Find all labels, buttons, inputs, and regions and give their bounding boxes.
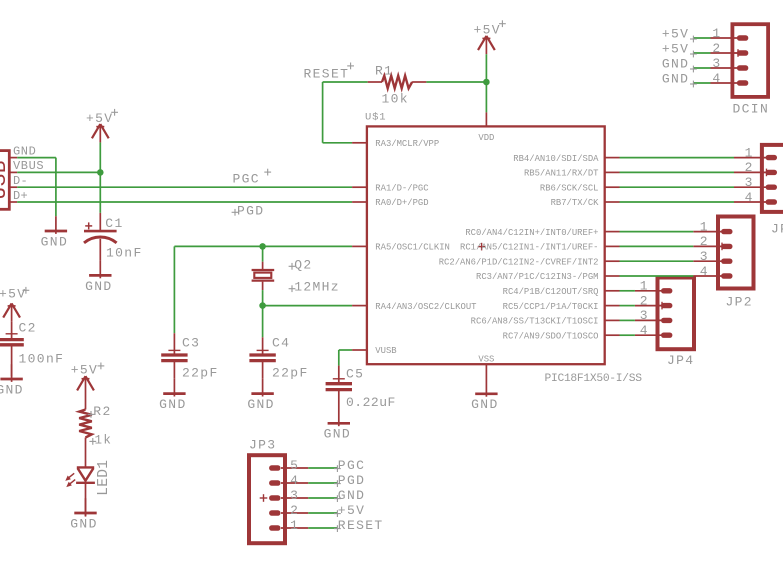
svg-text:Q2: Q2 (294, 257, 312, 272)
ground under C5 (324, 409, 351, 442)
label PGD (232, 203, 265, 218)
svg-text:4: 4 (290, 473, 299, 488)
svg-text:3: 3 (640, 308, 649, 323)
power +5V above VDD (474, 20, 506, 54)
svg-text:U$1: U$1 (365, 112, 386, 124)
svg-text:+5V: +5V (0, 287, 26, 302)
label RESET (304, 63, 355, 82)
svg-text:C3: C3 (182, 335, 200, 350)
svg-text:GND: GND (662, 56, 689, 71)
connector JP2 (693, 217, 753, 310)
svg-text:RA5/OSC1/CLKIN: RA5/OSC1/CLKIN (375, 243, 450, 253)
svg-text:1: 1 (640, 279, 649, 294)
wire IC to JP1 row (620, 171, 735, 173)
connector DCIN (711, 24, 770, 116)
wire GND net from USB (17, 158, 56, 217)
svg-text:D-: D- (13, 174, 28, 188)
svg-text:4: 4 (640, 323, 649, 338)
ground under VSS (471, 379, 498, 412)
labels JP3 PGC PGD GND +5V RESET (334, 458, 384, 533)
svg-text:RC1/AN5/C12IN1-/INT1/UREF-: RC1/AN5/C12IN1-/INT1/UREF- (460, 243, 598, 253)
svg-text:100nF: 100nF (19, 351, 65, 366)
svg-text:3: 3 (290, 488, 299, 503)
svg-text:3: 3 (700, 249, 709, 264)
wire junction down to C4 (262, 306, 264, 338)
junction VBUS/+5V/C1 (97, 169, 104, 176)
svg-text:RB5/AN11/RX/DT: RB5/AN11/RX/DT (524, 169, 599, 179)
svg-text:10k: 10k (382, 91, 409, 106)
power +5V above C1 (86, 109, 118, 142)
svg-text:2: 2 (290, 503, 299, 518)
connector JP1 (cut off at right edge) (734, 145, 783, 237)
wire net PGD (D+) USB to RA0 (17, 201, 352, 203)
svg-text:RC6/AN8/SS/T13CKI/T1OSCI: RC6/AN8/SS/T13CKI/T1OSCI (471, 317, 599, 327)
svg-text:+5V: +5V (86, 111, 113, 126)
wire R1 to +5V/VDD junction (426, 81, 486, 83)
capacitor C3 22pF (161, 333, 218, 380)
svg-text:GND: GND (159, 397, 186, 412)
svg-text:VBUS: VBUS (13, 159, 44, 173)
svg-text:PGD: PGD (237, 203, 264, 218)
svg-text:JP3: JP3 (249, 438, 276, 453)
svg-text:R2: R2 (93, 404, 111, 419)
ground under C3 (159, 379, 186, 412)
svg-text:4: 4 (712, 71, 721, 86)
wire IC to JP4 row (620, 319, 635, 321)
svg-text:GND: GND (324, 427, 351, 442)
svg-text:3: 3 (712, 56, 721, 71)
ground under LED1 (70, 498, 97, 531)
svg-text:1k: 1k (95, 433, 113, 447)
svg-text:+5V: +5V (662, 41, 689, 56)
svg-text:LED1: LED1 (96, 460, 112, 496)
svg-text:22pF: 22pF (182, 366, 219, 381)
svg-text:RA1/D-/PGC: RA1/D-/PGC (375, 183, 428, 193)
capacitor C1 10nF (polarized) (84, 213, 143, 261)
junction RA5/Q2 top (259, 243, 266, 250)
resistor R2 1k (79, 395, 112, 467)
svg-text:PGC: PGC (233, 171, 260, 186)
svg-text:RA3/MCLR/VPP: RA3/MCLR/VPP (375, 139, 439, 149)
svg-text:RC3/AN7/P1C/C12IN3-/PGM: RC3/AN7/P1C/C12IN3-/PGM (476, 272, 599, 282)
svg-text:5: 5 (290, 458, 299, 473)
svg-text:10nF: 10nF (106, 245, 143, 260)
wire +5V vertical to C1 (99, 142, 101, 213)
svg-text:R1: R1 (375, 64, 393, 79)
svg-text:RC0/AN4/C12IN+/INT0/UREF+: RC0/AN4/C12IN+/INT0/UREF+ (465, 228, 598, 238)
ground under C4 (247, 379, 274, 412)
svg-text:RB4/AN10/SDI/SDA: RB4/AN10/SDI/SDA (513, 154, 599, 164)
svg-text:GND: GND (13, 144, 36, 158)
wire +5V down to VDD (485, 54, 487, 112)
ground under C1 (85, 261, 112, 294)
svg-text:JP4: JP4 (667, 353, 694, 368)
svg-text:GND: GND (338, 488, 365, 503)
svg-text:VDD: VDD (478, 133, 494, 143)
svg-text:1: 1 (745, 145, 754, 160)
wire Q2 bottom to RA4 junction (262, 290, 264, 306)
svg-text:RESET: RESET (304, 66, 350, 81)
svg-text:1: 1 (700, 219, 709, 234)
wire stubs JP3 (308, 468, 337, 528)
svg-text:1: 1 (290, 518, 299, 533)
wire IC to JP1 row (620, 186, 735, 188)
wire IC to JP4 row (620, 305, 635, 307)
svg-text:1: 1 (712, 26, 721, 41)
wire net PGC (D-) USB to RA1 (17, 186, 352, 188)
X1 pin labels GND VBUS D- D+ (13, 144, 44, 202)
svg-text:USB: USB (0, 160, 12, 200)
svg-text:+5V: +5V (662, 26, 689, 41)
capacitor C2 100nF (0, 321, 64, 377)
svg-text:4: 4 (745, 190, 754, 205)
wire IC to JP2 row (620, 245, 694, 247)
svg-text:RA0/D+/PGD: RA0/D+/PGD (375, 198, 428, 208)
svg-text:PGD: PGD (338, 473, 365, 488)
wire IC to JP1 row (620, 157, 735, 159)
svg-text:2: 2 (640, 293, 649, 308)
junction +5V/R1/VDD (483, 79, 490, 86)
svg-text:3: 3 (745, 175, 754, 190)
svg-text:GND: GND (41, 234, 68, 249)
wire stubs DCIN (693, 38, 710, 83)
wire VBUS from USB to +5V junction (17, 171, 100, 173)
svg-text:RC2/AN6/P1D/C12IN2-/CVREF/INT2: RC2/AN6/P1D/C12IN2-/CVREF/INT2 (439, 257, 599, 267)
svg-text:VSS: VSS (478, 354, 494, 364)
labels DCIN +5V +5V GND GND (662, 26, 697, 87)
svg-text:RC5/CCP1/P1A/T0CKI: RC5/CCP1/P1A/T0CKI (503, 302, 599, 312)
svg-text:RB7/TX/CK: RB7/TX/CK (551, 198, 600, 208)
svg-text:RC4/P1B/C12OUT/SRQ: RC4/P1B/C12OUT/SRQ (503, 287, 599, 297)
svg-text:GND: GND (662, 71, 689, 86)
svg-text:PIC18F1X50-I/SS: PIC18F1X50-I/SS (545, 373, 643, 385)
svg-text:PGC: PGC (338, 458, 365, 473)
svg-text:RC7/AN9/SDO/T1OSCO: RC7/AN9/SDO/T1OSCO (503, 331, 599, 341)
svg-text:C1: C1 (105, 216, 123, 231)
wire net RESET to RA3 (323, 82, 368, 143)
svg-text:+5V: +5V (338, 503, 365, 518)
wire IC to JP4 row (620, 334, 635, 336)
ground under C2 (0, 364, 24, 397)
svg-text:GND: GND (471, 397, 498, 412)
svg-text:2: 2 (712, 41, 721, 56)
svg-text:D+: D+ (13, 189, 28, 203)
label PGC (233, 169, 272, 187)
capacitor C5 0.22uF (326, 366, 396, 411)
svg-text:0.22uF: 0.22uF (346, 395, 396, 410)
svg-text:+5V: +5V (474, 22, 501, 37)
svg-text:C2: C2 (19, 321, 37, 336)
junction RA4/Q2/C4 (259, 302, 266, 309)
crystal Q2 12MHz (252, 257, 340, 294)
svg-text:12MHz: 12MHz (294, 280, 340, 295)
svg-text:GND: GND (247, 397, 274, 412)
resistor R1 10k (368, 64, 427, 107)
svg-text:C5: C5 (346, 367, 364, 382)
svg-text:RB6/SCK/SCL: RB6/SCK/SCL (540, 183, 599, 193)
wire IC to JP4 row (620, 290, 635, 292)
wire IC to JP2 row (620, 260, 694, 262)
svg-text:GND: GND (70, 516, 97, 531)
LED LED1 (65, 460, 112, 517)
power +5V above R2 (71, 363, 105, 395)
svg-text:2: 2 (700, 234, 709, 249)
wire RA4 net (263, 305, 353, 307)
connector JP4 (635, 278, 695, 369)
svg-text:4: 4 (700, 264, 709, 279)
wire IC to JP1 row (620, 201, 735, 203)
wire IC to JP2 row (620, 231, 694, 233)
capacitor C4 22pF (249, 335, 308, 380)
svg-text:VUSB: VUSB (375, 346, 396, 356)
svg-text:GND: GND (0, 382, 24, 397)
svg-text:22pF: 22pF (272, 366, 309, 381)
power +5V above C2 (0, 287, 29, 322)
svg-text:RESET: RESET (338, 518, 384, 533)
connector JP3 (249, 438, 308, 544)
svg-text:+5V: +5V (71, 363, 98, 378)
connector X1 USB (cut off at left edge) (0, 151, 17, 210)
svg-text:2: 2 (745, 160, 754, 175)
wire VUSB to C5 (339, 350, 352, 366)
wire IC to JP2 row (620, 275, 694, 277)
wire junction to Q2 top (262, 246, 264, 261)
svg-text:C4: C4 (272, 335, 290, 350)
svg-text:DCIN: DCIN (733, 102, 770, 117)
svg-text:JP1: JP1 (771, 222, 783, 237)
wire RA5 net to C3/Q2 (174, 246, 352, 333)
svg-text:RA4/AN3/OSC2/CLKOUT: RA4/AN3/OSC2/CLKOUT (375, 302, 476, 312)
svg-text:JP2: JP2 (726, 295, 753, 310)
ground under USB GND wire (41, 216, 68, 249)
op-amp U1 PIC18F1X50-I/SS microcontroller (352, 112, 642, 385)
svg-text:GND: GND (85, 279, 112, 294)
